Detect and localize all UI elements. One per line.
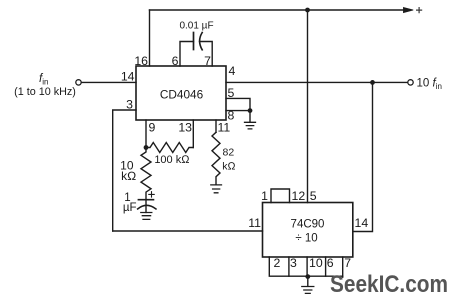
svg-text:16: 16 <box>134 54 148 68</box>
pin row divider b <box>306 257 308 276</box>
capacitor C1 0.01uF curved plate <box>200 33 203 50</box>
svg-text:12: 12 <box>292 189 306 203</box>
wire capacitor C2 to ground <box>145 200 147 213</box>
wire long bottom run to 74C90 pin 11 <box>113 230 263 232</box>
svg-text:13: 13 <box>178 121 192 135</box>
wire output rail down to 74C90 pin 14 <box>353 82 373 231</box>
svg-text:CD4046: CD4046 <box>160 88 204 102</box>
wire input to pin 14 <box>81 81 136 83</box>
svg-text:3: 3 <box>290 256 297 270</box>
resistor R2 10k vertical <box>141 148 151 200</box>
arrowhead +V <box>404 8 414 13</box>
capacitor C2 curved plate <box>138 205 156 209</box>
label + supply <box>417 8 422 13</box>
capacitor C2 plus polarity mark <box>149 192 154 197</box>
wire bottom rail to ground <box>307 277 309 287</box>
svg-text:11: 11 <box>248 216 261 230</box>
bottom pin row outline 74C90 <box>269 257 342 277</box>
svg-text:14: 14 <box>121 70 135 84</box>
svg-text:14: 14 <box>355 216 369 230</box>
wire +V top rail <box>150 9 405 11</box>
svg-text:7: 7 <box>344 256 351 270</box>
ground pin8 <box>245 122 256 129</box>
capacitor C1 0.01uF flat plate <box>193 33 195 50</box>
node junction output rail <box>370 80 375 85</box>
wire bracket pins 1-12 <box>271 189 290 203</box>
resistor R1 100k horizontal <box>146 143 193 153</box>
node junction pin5-pin8 <box>248 108 253 113</box>
svg-text:1: 1 <box>261 189 268 203</box>
svg-text:SeekIC.com: SeekIC.com <box>330 271 448 298</box>
input terminal circle fin <box>76 80 81 85</box>
node junction bottom rail <box>305 274 310 279</box>
svg-text:2: 2 <box>274 256 281 270</box>
capacitor C2 1uF flat plate <box>138 199 153 201</box>
svg-text:÷ 10: ÷ 10 <box>295 233 317 245</box>
wire pin 8 <box>226 110 250 112</box>
svg-text:9: 9 <box>149 121 156 135</box>
wire junction to ground <box>249 111 251 122</box>
IC U2 74C90 body <box>263 203 353 258</box>
wire pin 5 <box>226 98 250 110</box>
wire pin 4 output rail <box>226 81 408 83</box>
pin row right leg <box>342 257 344 276</box>
ground R3 <box>211 185 222 193</box>
svg-text:5: 5 <box>228 86 235 100</box>
wire pin 3 down-left to 74C90 pin 11 (vertical run) <box>113 110 136 231</box>
svg-text:6: 6 <box>172 54 179 68</box>
wire pin 9 down <box>145 120 147 148</box>
wire pin 11 down <box>215 120 217 132</box>
wire pin 13 down <box>192 120 194 148</box>
svg-text:7: 7 <box>204 54 211 68</box>
node junction pin9 <box>144 145 149 150</box>
svg-text:82: 82 <box>223 147 235 159</box>
svg-text:11: 11 <box>218 121 231 135</box>
svg-text:10: 10 <box>309 256 323 270</box>
node junction on +V rail <box>305 8 310 13</box>
ground C2 <box>141 213 152 220</box>
wire capacitor C1 to pin7 <box>200 42 213 67</box>
svg-text:0.01 µF: 0.01 µF <box>179 21 213 32</box>
svg-text:74C90: 74C90 <box>291 218 325 230</box>
svg-text:µF: µF <box>123 202 137 214</box>
ground 74C90 <box>302 287 314 294</box>
svg-text:6: 6 <box>327 256 334 270</box>
svg-text:4: 4 <box>229 64 236 78</box>
IC U1 CD4046 body <box>136 66 226 120</box>
wire +V rail down to 74C90 pin 5 <box>307 10 309 203</box>
svg-text:kΩ: kΩ <box>121 169 136 183</box>
svg-text:kΩ: kΩ <box>222 161 235 173</box>
output terminal circle 10 fin <box>408 80 413 85</box>
wire pin6 up to capacitor C1 <box>180 42 194 67</box>
pin row divider a <box>288 257 290 276</box>
svg-text:100 kΩ: 100 kΩ <box>154 154 190 166</box>
svg-text:(1 to 10 kHz): (1 to 10 kHz) <box>14 86 76 98</box>
wire pin16 to +V rail <box>149 10 151 66</box>
pin row divider c <box>325 257 327 276</box>
svg-text:5: 5 <box>310 189 317 203</box>
resistor R3 82k vertical <box>212 132 220 184</box>
